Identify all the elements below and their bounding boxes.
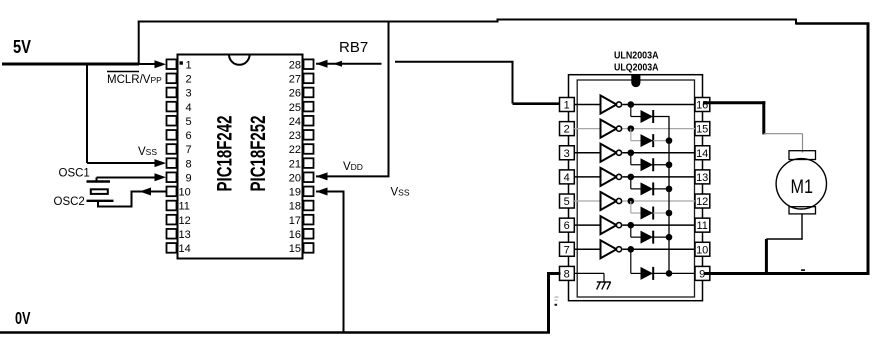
arrow into PIC pin 9 — [155, 173, 167, 181]
inversion bubble channel 1 — [616, 102, 621, 107]
PIC left pin 1 box — [167, 59, 177, 69]
wire pin16 drop down — [762, 101, 765, 134]
wire 5V branch down to Vss pin 8 — [86, 64, 88, 163]
pin label MCLR/VPP with overline — [107, 71, 139, 73]
svg-text:4: 4 — [564, 172, 570, 184]
ULN2003A U2 outer body — [569, 75, 703, 301]
svg-text:26: 26 — [289, 88, 301, 100]
wire 5V rail thin part — [138, 63, 156, 65]
svg-text:9: 9 — [186, 172, 192, 184]
PIC left pin 11 box — [167, 201, 177, 211]
wire pin 8 to ground symbol — [574, 272, 604, 274]
junction dot rail/diode D7 — [666, 270, 673, 277]
junction dot rail/diode D6 — [666, 234, 673, 241]
PIC right pin 26 box — [304, 88, 314, 98]
inverter buffer channel 2 — [601, 120, 617, 138]
svg-text:RB7: RB7 — [339, 39, 368, 56]
wire diode D4 anode — [631, 188, 641, 190]
junction dot rail/diode D3 — [666, 161, 673, 168]
wire ULN pin 9 COM to 5V right vertical — [704, 272, 870, 275]
ULN right pin 9 box — [695, 266, 710, 280]
wire diode D7 anode — [631, 272, 641, 274]
PIC left pin 7 box — [167, 144, 177, 154]
flyback diode D7 — [641, 267, 654, 280]
junction dot channel 6 output — [628, 222, 635, 229]
PIC left pin 4 box — [167, 102, 177, 112]
svg-text:0V: 0V — [15, 308, 31, 328]
PIC right pin 24 box — [304, 116, 314, 126]
wire diode D3 anode — [631, 164, 641, 166]
arrow into PIC pin 28 — [316, 60, 328, 68]
wire gray into motor top terminal — [802, 134, 804, 153]
PIC left pin 14 box — [167, 243, 177, 253]
wire Vss drop to 0V rail — [343, 192, 345, 334]
wire ULN input 7 to inverter — [574, 248, 601, 250]
junction dot channel 5 output — [628, 198, 635, 205]
flyback diode D2 — [641, 134, 654, 147]
ULN2003A inner body outline — [577, 80, 694, 297]
crystal X1 bottom plate — [87, 200, 114, 202]
wire diode D6 anode — [631, 236, 641, 238]
wire 5V rail — [2, 63, 139, 66]
svg-text:28: 28 — [289, 59, 301, 71]
wire diode D1 anode — [631, 116, 641, 118]
svg-text:ULQ2003A: ULQ2003A — [614, 62, 659, 73]
ULN left pin 5 box — [560, 194, 575, 208]
svg-text:VDD: VDD — [343, 161, 363, 173]
ULN notch mark — [631, 75, 640, 83]
svg-text:10: 10 — [179, 187, 191, 199]
inverter buffer channel 4 — [601, 168, 617, 186]
wire diode D5 anode — [631, 212, 641, 214]
PIC right pin 17 box — [304, 215, 314, 225]
PIC right pin 20 box — [304, 172, 314, 182]
junction dot channel 1 output — [628, 101, 635, 108]
PIC left pin 12 box — [167, 215, 177, 225]
wire common cathode rail — [668, 117, 670, 274]
PIC top notch — [229, 55, 250, 65]
wire stub from output 5 to diode D5 — [630, 201, 632, 213]
PIC left pin 5 box — [167, 116, 177, 126]
wire VDD vertical drop — [388, 22, 390, 177]
svg-text:12: 12 — [696, 196, 708, 208]
svg-text:25: 25 — [289, 102, 301, 114]
wire inverter 1 output to pin — [623, 104, 696, 106]
svg-text:VSS: VSS — [391, 187, 410, 199]
PIC right pin 19 box — [304, 187, 314, 197]
arrow into PIC pin 1 — [155, 60, 167, 68]
wire inverter 3 output to pin — [623, 152, 696, 154]
wire inverter 6 output to pin — [623, 224, 696, 226]
svg-text:6: 6 — [186, 130, 192, 142]
wire diode D5 cathode to common rail — [653, 212, 669, 214]
ULN right pin 11 box — [695, 218, 710, 232]
small tick artifact — [801, 269, 805, 271]
inverter buffer channel 3 — [601, 144, 617, 162]
PIC left pin 8 box — [167, 158, 177, 168]
svg-text:16: 16 — [289, 229, 301, 241]
wire OSC2 from crystal to pin 10 — [98, 192, 166, 207]
wire motor bottom terminal down — [801, 214, 803, 240]
wire 0V rail — [0, 331, 550, 334]
second arrowhead mark RB7 — [333, 61, 342, 67]
ULN left pin 6 box — [560, 218, 575, 232]
wire drop to pin 9 rail — [765, 239, 768, 275]
flyback diode D5 — [641, 207, 654, 220]
ULN right pin 10 box — [695, 242, 710, 256]
inversion bubble channel 6 — [616, 223, 621, 228]
svg-text:VSS: VSS — [138, 146, 157, 158]
arrow into PIC pin 20 — [316, 172, 328, 180]
junction dot rail/diode D5 — [666, 210, 673, 217]
svg-text:7: 7 — [564, 244, 570, 256]
wire stub from output 4 to diode D4 — [630, 177, 632, 189]
wire rail to pin 9 — [669, 272, 695, 274]
inversion bubble channel 5 — [616, 198, 621, 203]
PIC right pin 23 box — [304, 130, 314, 140]
junction dot channel 3 output — [628, 149, 635, 156]
wire RB7 segment B — [395, 61, 514, 63]
wire inverter 5 output to pin — [623, 200, 696, 202]
crystal X1 top plate — [87, 180, 111, 182]
svg-text:24: 24 — [289, 116, 301, 128]
junction dot channel 2 output — [628, 125, 635, 132]
wire diode D4 cathode to common rail — [653, 188, 669, 190]
svg-text:15: 15 — [696, 124, 708, 136]
svg-text:19: 19 — [289, 187, 301, 199]
svg-text:12: 12 — [179, 215, 191, 227]
PIC right pin 18 box — [304, 201, 314, 211]
inversion bubble channel 3 — [616, 150, 621, 155]
junction dot channel 7 output — [628, 246, 635, 253]
wire RB7 drop down — [512, 62, 514, 104]
svg-text:3: 3 — [186, 88, 192, 100]
PIC left pin 10 box — [167, 187, 177, 197]
svg-text:OSC2: OSC2 — [54, 196, 85, 208]
svg-text:13: 13 — [179, 229, 191, 241]
svg-text:21: 21 — [289, 158, 301, 170]
svg-text:27: 27 — [289, 74, 301, 86]
PIC right pin 21 box — [304, 158, 314, 168]
flyback diode D1 — [641, 110, 654, 123]
wire ULN input 6 to inverter — [574, 224, 601, 226]
svg-text:8: 8 — [186, 158, 192, 170]
motor M1 top terminal — [789, 151, 816, 160]
PIC right pin 15 box — [304, 243, 314, 253]
PIC right pin 16 box — [304, 229, 314, 239]
wire stub from output 7 to diode D7 — [630, 249, 632, 273]
svg-text:1: 1 — [186, 59, 192, 71]
PIC microcontroller U1 body — [178, 55, 303, 259]
inversion bubble channel 4 — [616, 174, 621, 179]
PIC left pin 3 box — [167, 88, 177, 98]
ULN left pin 4 box — [560, 170, 575, 184]
ground symbol — [597, 282, 611, 290]
svg-text:20: 20 — [289, 172, 301, 184]
svg-text:14: 14 — [696, 148, 708, 160]
pin 1 indicator dot — [180, 61, 183, 64]
inverter buffer channel 7 — [601, 240, 617, 258]
ULN left pin 1 box — [560, 98, 575, 112]
svg-text:22: 22 — [289, 144, 301, 156]
svg-text:5: 5 — [564, 196, 570, 208]
svg-text:5: 5 — [186, 116, 192, 128]
wire 5V branch up to top rail — [138, 22, 140, 66]
wire Vss from pin 19 — [316, 191, 345, 193]
svg-text:17: 17 — [289, 215, 301, 227]
svg-text:M1: M1 — [791, 176, 814, 198]
svg-text:11: 11 — [696, 220, 707, 232]
junction dot rail/diode D4 — [666, 186, 673, 193]
PIC right pin 28 box — [304, 59, 314, 69]
wire ULN pin 8 to ground rail — [549, 272, 561, 275]
wire motor bottom to left — [766, 238, 802, 240]
wire right-side vertical 5V drop — [867, 23, 870, 275]
svg-text:15: 15 — [289, 243, 301, 255]
wire ULN input 5 to inverter — [574, 200, 601, 202]
wire stub from output 6 to diode D6 — [630, 225, 632, 237]
wire top rail segment C — [796, 22, 870, 25]
inversion bubble channel 2 — [616, 126, 621, 131]
svg-text:8: 8 — [564, 268, 570, 280]
PIC right pin 25 box — [304, 102, 314, 112]
ULN right pin 15 box — [695, 122, 710, 136]
small gray artifact marks — [555, 297, 559, 298]
wire inverter 2 output to pin — [623, 128, 696, 130]
svg-text:ULN2003A: ULN2003A — [614, 51, 659, 62]
inversion bubble channel 7 — [616, 247, 621, 252]
svg-text:OSC1: OSC1 — [59, 168, 90, 180]
wire ULN input 4 to inverter — [574, 176, 601, 178]
svg-text:1: 1 — [564, 100, 570, 112]
ULN right pin 12 box — [695, 194, 710, 208]
flyback diode D4 — [641, 182, 654, 195]
wire diode D2 anode — [631, 140, 641, 142]
wire top rail segment A — [138, 21, 499, 23]
PIC left pin 13 box — [167, 229, 177, 239]
wire inverter 7 output to pin — [623, 248, 696, 250]
wire diode D2 cathode to common rail — [653, 140, 669, 142]
wire OSC1 stub down — [96, 178, 98, 183]
svg-text:11: 11 — [179, 201, 190, 213]
wire diode D1 cathode to common rail — [653, 116, 669, 118]
wire RB7 from pin 28, segment A — [316, 63, 382, 65]
svg-text:MCLR/VPP: MCLR/VPP — [107, 74, 162, 86]
flyback diode D3 — [641, 158, 654, 171]
svg-text:6: 6 — [564, 220, 570, 232]
svg-text:13: 13 — [696, 172, 708, 184]
wire ULN input 1 to inverter — [574, 104, 601, 106]
wire stub from output 2 to diode D2 — [630, 129, 632, 141]
junction dot rail/diode D2 — [666, 137, 673, 144]
svg-text:14: 14 — [179, 243, 191, 255]
wire ULN input 3 to inverter — [574, 152, 601, 154]
wire gray to motor top — [764, 133, 803, 135]
flyback diode D6 — [641, 231, 654, 244]
wire top rail segment B — [498, 19, 798, 21]
wire RB7 into ULN pin 1 — [513, 102, 561, 105]
ULN right pin 14 box — [695, 146, 710, 160]
PIC right pin 22 box — [304, 144, 314, 154]
inverter buffer channel 1 — [601, 96, 617, 114]
motor M1 body — [776, 159, 826, 209]
svg-text:2: 2 — [564, 124, 570, 136]
wire ground stub — [603, 273, 605, 282]
ULN right pin 16 box — [695, 98, 710, 112]
PIC right pin 27 box — [304, 74, 314, 84]
inverter buffer channel 6 — [601, 216, 617, 234]
PIC left pin 6 box — [167, 130, 177, 140]
wire OSC1 into pin 9 — [97, 177, 156, 179]
wire jog at top rail right — [795, 19, 797, 25]
crystal X1 body — [91, 189, 108, 194]
svg-text:PIC18F252: PIC18F252 — [246, 115, 270, 191]
svg-text:23: 23 — [289, 130, 301, 142]
ULN right pin 13 box — [695, 170, 710, 184]
wire VDD from top rail to pin 20 — [316, 175, 390, 177]
wire jog at top rail — [497, 19, 499, 23]
wire inverter 4 output to pin — [623, 176, 696, 178]
svg-text:7: 7 — [186, 144, 192, 156]
wire into pin 8 — [87, 162, 155, 164]
svg-text:10: 10 — [696, 244, 708, 256]
arrow out of PIC pin 10 (OSC2) — [140, 188, 152, 196]
ULN left pin 7 box — [560, 242, 575, 256]
wire diode D6 cathode to common rail — [653, 236, 669, 238]
wire ULN input 2 to inverter — [574, 128, 601, 130]
arrow into PIC pin 19 — [316, 188, 328, 196]
ULN left pin 8 box — [560, 266, 575, 280]
arrow into PIC pin 8 — [155, 159, 167, 167]
wire diode D3 cathode to common rail — [653, 164, 669, 166]
wire ULN pin 16 output to motor — [703, 101, 765, 104]
ULN left pin 3 box — [560, 146, 575, 160]
motor M1 bottom terminal — [789, 207, 816, 214]
svg-text:4: 4 — [186, 102, 192, 114]
inverter buffer channel 5 — [601, 192, 617, 210]
svg-text:3: 3 — [564, 148, 570, 160]
junction dot channel 4 output — [628, 174, 635, 181]
svg-text:18: 18 — [289, 201, 301, 213]
ULN left pin 2 box — [560, 122, 575, 136]
PIC left pin 2 box — [167, 74, 177, 84]
wire diode D7 cathode to common rail — [653, 272, 669, 274]
wire pin 8 drop to 0V rail — [547, 272, 550, 333]
svg-text:PIC18F242: PIC18F242 — [212, 115, 236, 191]
PIC left pin 9 box — [167, 172, 177, 182]
wire stub from output 3 to diode D3 — [630, 153, 632, 165]
wire stub from output 1 to diode D1 — [630, 105, 632, 117]
svg-text:2: 2 — [186, 74, 192, 86]
svg-text:5V: 5V — [13, 37, 31, 57]
